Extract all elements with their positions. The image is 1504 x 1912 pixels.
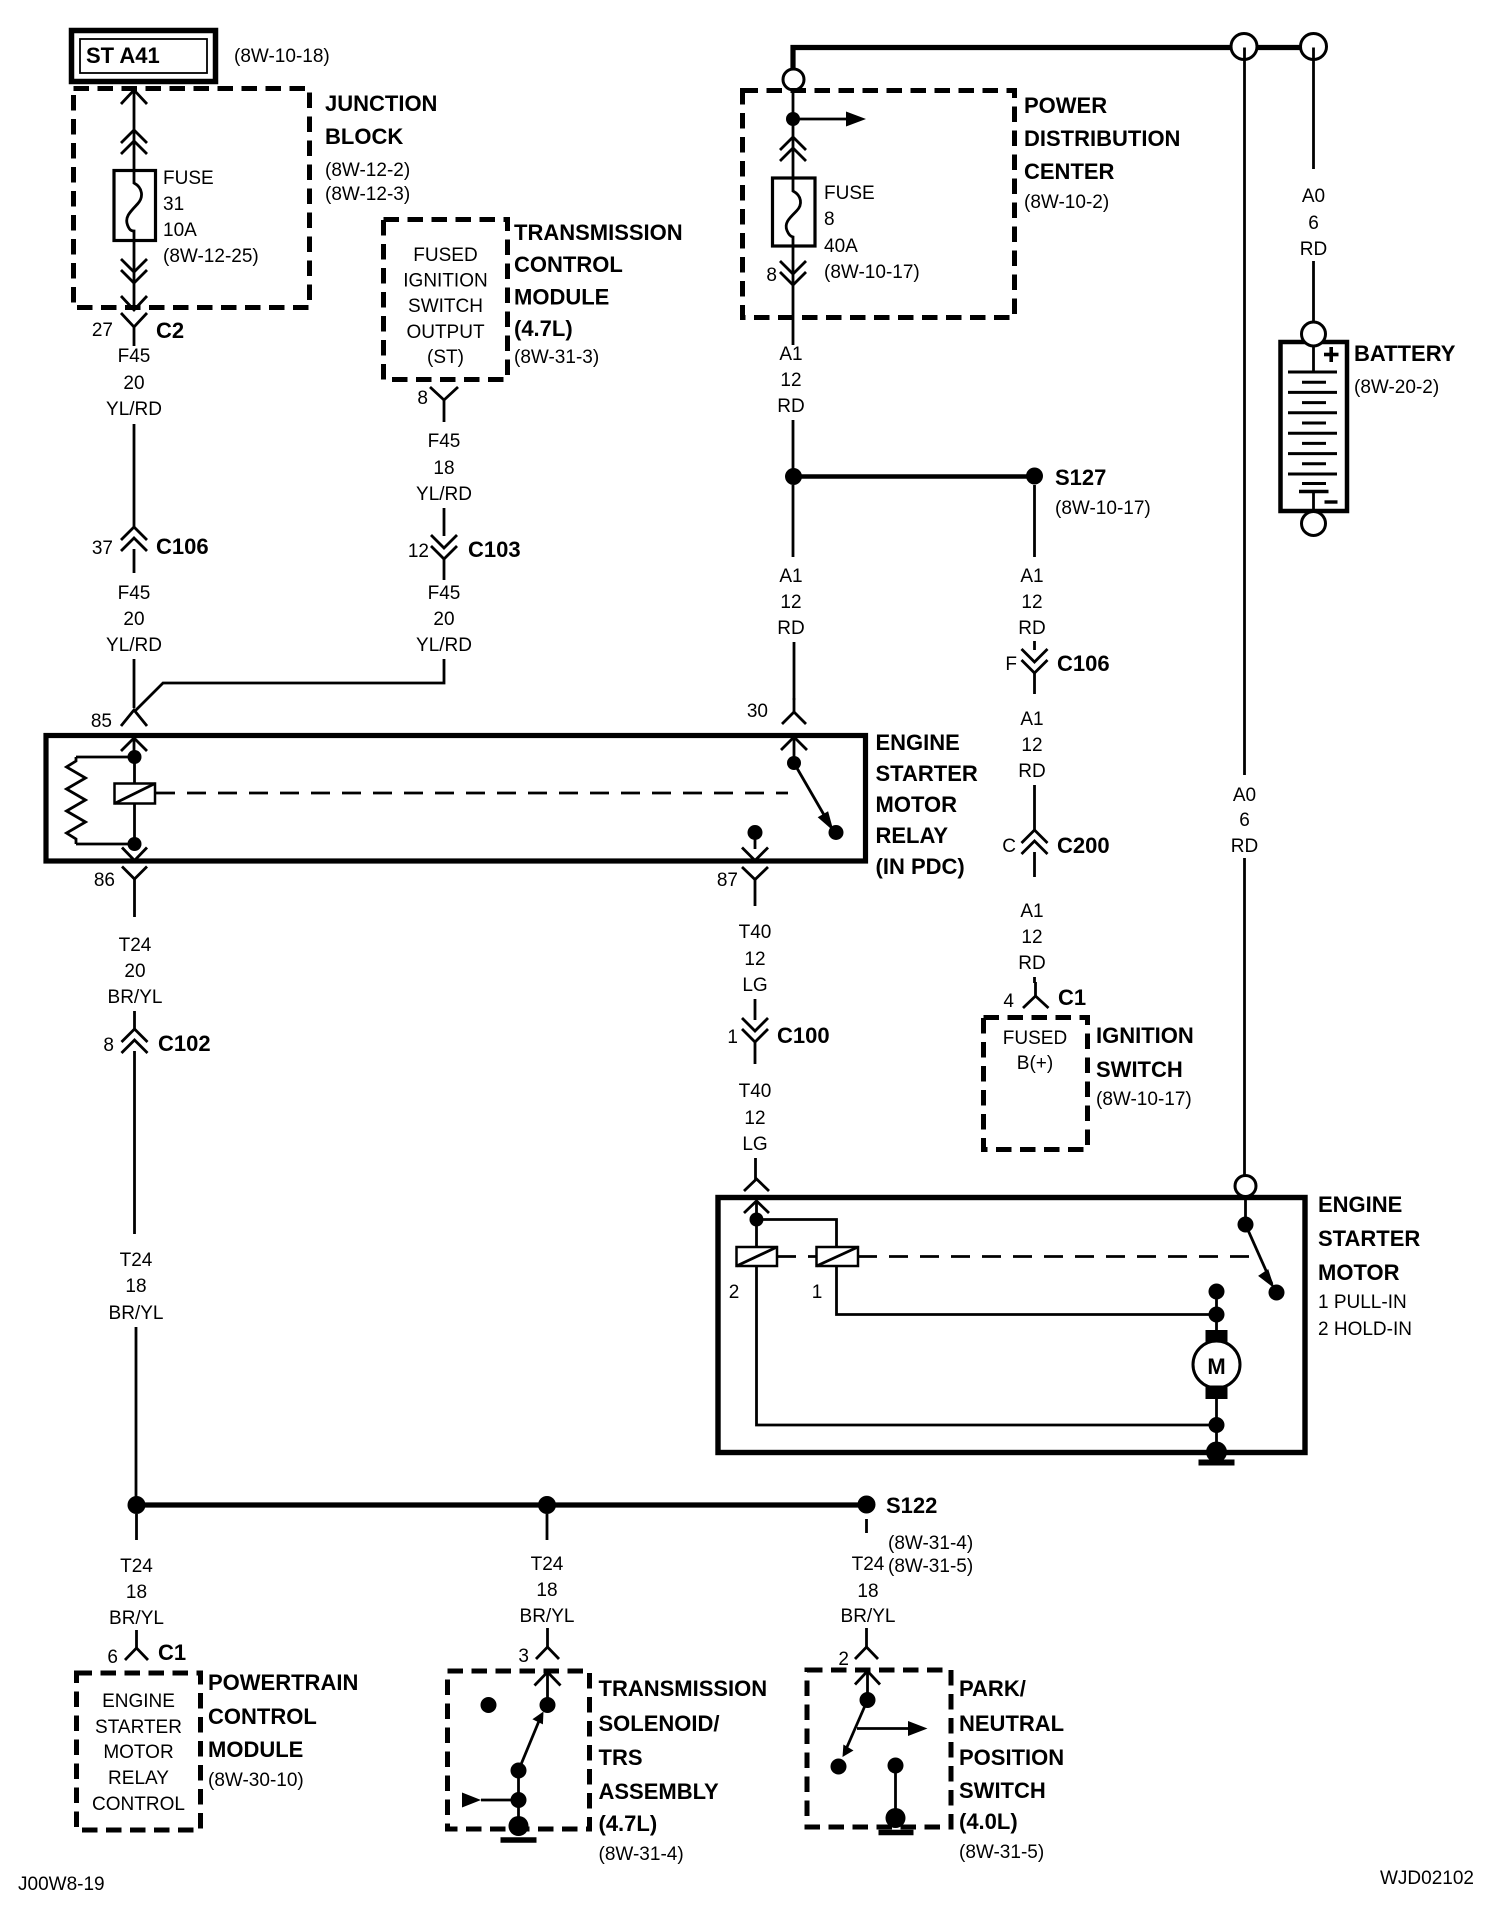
junction block box — [74, 89, 310, 308]
svg-text:12: 12 — [1021, 927, 1042, 948]
engine starter motor box — [718, 1198, 1305, 1453]
TRS free contact dot — [481, 1697, 497, 1713]
svg-text:(8W-12-25): (8W-12-25) — [163, 246, 259, 267]
wire to relay pin 30 — [793, 642, 796, 700]
wire label T24 20 BR/YL — [108, 935, 163, 1008]
relay pin 30 inner mark — [781, 737, 807, 750]
svg-text:MODULE: MODULE — [514, 285, 609, 310]
ignition switch label — [1096, 1023, 1194, 1110]
svg-text:C102: C102 — [158, 1031, 211, 1056]
svg-text:F45: F45 — [428, 583, 461, 604]
relay label — [876, 730, 978, 879]
svg-text:A1: A1 — [779, 344, 802, 365]
PDC branch arrow — [793, 112, 866, 127]
svg-text:(8W-10-17): (8W-10-17) — [824, 262, 920, 283]
wire S127 down left — [792, 485, 795, 557]
svg-text:A1: A1 — [779, 566, 802, 587]
svg-text:A1: A1 — [1020, 709, 1043, 730]
svg-text:(4.7L): (4.7L) — [599, 1811, 658, 1836]
wire label F45 20 YL/RD — [106, 346, 162, 420]
wire label T24 18 BR/YL — [520, 1554, 575, 1627]
svg-text:MOTOR: MOTOR — [876, 792, 958, 817]
wire 87 to C100 — [754, 999, 757, 1020]
wire TCM to C103 — [443, 508, 446, 536]
svg-text:TRANSMISSION: TRANSMISSION — [514, 220, 683, 245]
svg-text:B(+): B(+) — [1017, 1053, 1053, 1074]
svg-text:SWITCH: SWITCH — [408, 296, 483, 317]
svg-text:ST A41: ST A41 — [86, 43, 160, 68]
splice S122 bus — [136, 1502, 867, 1507]
svg-text:C100: C100 — [777, 1023, 830, 1048]
node battery feed circle 2 — [1301, 34, 1327, 60]
svg-text:T24: T24 — [852, 1554, 885, 1575]
svg-text:YL/RD: YL/RD — [106, 399, 162, 420]
svg-text:8: 8 — [766, 265, 777, 286]
svg-text:BR/YL: BR/YL — [109, 1303, 164, 1324]
ground PNP — [879, 1808, 914, 1833]
svg-text:12: 12 — [1021, 735, 1042, 756]
svg-text:T40: T40 — [739, 1081, 772, 1102]
power distribution center label — [1024, 93, 1180, 213]
svg-text:CONTROL: CONTROL — [514, 252, 623, 277]
connector relay pin 30 — [747, 698, 806, 724]
svg-text:C: C — [1002, 836, 1016, 857]
connector C103 pin 12 — [408, 535, 521, 580]
wire pin30 into switch — [793, 736, 796, 763]
svg-text:12: 12 — [780, 592, 801, 613]
svg-text:BLOCK: BLOCK — [325, 124, 403, 149]
PNP switch arm — [843, 1700, 868, 1757]
wire label T40 12 LG — [739, 1081, 772, 1155]
svg-text:A1: A1 — [1020, 566, 1043, 587]
svg-text:(8W-20-2): (8W-20-2) — [1354, 377, 1439, 398]
svg-text:85: 85 — [91, 711, 112, 732]
svg-text:FUSED: FUSED — [1003, 1028, 1067, 1049]
svg-text:20: 20 — [123, 373, 144, 394]
wire S122 to PCM — [135, 1514, 138, 1540]
starter switch arm — [1246, 1225, 1275, 1289]
wire C2 to C106 — [133, 424, 136, 527]
svg-text:8: 8 — [417, 388, 428, 409]
motor M1 — [1193, 1284, 1240, 1453]
wire S122 to TRS — [546, 1514, 549, 1540]
svg-text:YL/RD: YL/RD — [416, 635, 472, 656]
svg-text:4: 4 — [1003, 991, 1014, 1012]
svg-text:BR/YL: BR/YL — [109, 1608, 164, 1629]
svg-text:STARTER: STARTER — [876, 761, 978, 786]
svg-text:(4.0L): (4.0L) — [959, 1809, 1018, 1834]
svg-text:F45: F45 — [118, 583, 151, 604]
svg-text:3: 3 — [518, 1646, 529, 1667]
svg-text:BR/YL: BR/YL — [841, 1606, 896, 1627]
wire switch feed — [1244, 1197, 1247, 1226]
svg-text:BR/YL: BR/YL — [520, 1606, 575, 1627]
starter pin entry mark — [744, 1201, 769, 1220]
svg-text:F45: F45 — [118, 346, 151, 367]
svg-text:T24: T24 — [531, 1554, 564, 1575]
svg-text:(8W-12-3): (8W-12-3) — [325, 184, 410, 205]
powertrain control module box — [77, 1673, 201, 1830]
wire into junction block — [121, 90, 147, 171]
svg-text:BR/YL: BR/YL — [108, 987, 163, 1008]
svg-text:MODULE: MODULE — [208, 1737, 303, 1762]
svg-text:NEUTRAL: NEUTRAL — [959, 1711, 1064, 1736]
svg-text:OUTPUT: OUTPUT — [406, 322, 485, 343]
node battery feed circle 1 — [1231, 34, 1257, 60]
svg-text:MOTOR: MOTOR — [103, 1742, 173, 1763]
node ST A41 — [72, 31, 216, 82]
svg-text:6: 6 — [1239, 810, 1250, 831]
ground TRS — [501, 1816, 537, 1840]
wire label A1 12 RD — [777, 566, 804, 639]
svg-text:SWITCH: SWITCH — [959, 1778, 1046, 1803]
connector marks above fuse 8 — [780, 137, 806, 161]
svg-text:RD: RD — [1300, 239, 1327, 260]
svg-text:PARK/: PARK/ — [959, 1676, 1026, 1701]
svg-text:37: 37 — [92, 538, 113, 559]
svg-text:CONTROL: CONTROL — [92, 1794, 185, 1815]
PNP switch contact dot — [831, 1759, 847, 1775]
transmission solenoid TRS box — [448, 1671, 590, 1829]
svg-text:C106: C106 — [156, 534, 209, 559]
TRS entry mark — [535, 1672, 561, 1698]
wire label A1 12 RD — [777, 344, 804, 417]
svg-text:27: 27 — [92, 320, 113, 341]
svg-text:(8W-31-5): (8W-31-5) — [888, 1556, 973, 1577]
svg-text:A1: A1 — [1020, 901, 1043, 922]
junction block label — [325, 91, 437, 205]
svg-text:RD: RD — [1018, 953, 1045, 974]
svg-text:20: 20 — [124, 961, 145, 982]
mechanical link coil1-switch (dashed) — [858, 1255, 1252, 1258]
PNP arrow — [857, 1721, 928, 1736]
connector C102 pin 8 — [103, 1029, 210, 1234]
svg-text:40A: 40A — [824, 236, 858, 257]
fuse 31 10A — [114, 171, 156, 241]
svg-text:C1: C1 — [158, 1640, 186, 1665]
node relay coil top — [128, 750, 142, 764]
svg-text:T24: T24 — [120, 1556, 153, 1577]
wire C102 to S122 — [135, 1327, 138, 1500]
svg-text:20: 20 — [123, 609, 144, 630]
TCM output box — [384, 220, 508, 380]
wire PDC to S127 — [792, 420, 795, 470]
svg-text:C2: C2 — [156, 318, 184, 343]
svg-text:A0: A0 — [1233, 785, 1256, 806]
wire pull-in coil to motor — [837, 1266, 1217, 1315]
svg-text:(8W-31-4): (8W-31-4) — [888, 1533, 973, 1554]
svg-text:20: 20 — [433, 609, 454, 630]
TRS arrow — [462, 1793, 519, 1808]
PNP second pole — [888, 1758, 904, 1819]
wire label T24 18 BR/YL — [109, 1250, 164, 1324]
svg-text:J00W8-19: J00W8-19 — [18, 1874, 105, 1895]
svg-text:8: 8 — [824, 209, 835, 230]
svg-text:8: 8 — [103, 1035, 114, 1056]
svg-text:BATTERY: BATTERY — [1354, 341, 1456, 366]
connector TCM pin 8 — [417, 387, 458, 422]
svg-text:(8W-10-17): (8W-10-17) — [1055, 498, 1151, 519]
connector starter motor pin — [744, 1179, 769, 1191]
PCM box text — [92, 1691, 185, 1815]
pull-in coil 1 — [817, 1247, 859, 1266]
svg-text:FUSE: FUSE — [824, 183, 875, 204]
svg-text:SWITCH: SWITCH — [1096, 1057, 1183, 1082]
connector C106 pin F — [1005, 641, 1109, 694]
ignition switch box — [984, 1018, 1088, 1150]
svg-text:JUNCTION: JUNCTION — [325, 91, 437, 116]
svg-text:YL/RD: YL/RD — [416, 484, 472, 505]
svg-text:(8W-31-3): (8W-31-3) — [514, 347, 599, 368]
svg-text:S122: S122 — [886, 1493, 937, 1518]
connector TRS pin 3 — [518, 1628, 559, 1667]
fuse 8 40A — [773, 178, 816, 249]
relay pin 85 — [91, 710, 147, 757]
svg-text:2: 2 — [729, 1282, 740, 1303]
TRS label — [599, 1676, 768, 1865]
svg-text:MOTOR: MOTOR — [1318, 1260, 1400, 1285]
svg-text:A0: A0 — [1302, 186, 1325, 207]
wire label T24 18 BR/YL — [109, 1556, 164, 1629]
svg-text:2 HOLD-IN: 2 HOLD-IN — [1318, 1319, 1412, 1340]
relay pin 87 dot — [748, 825, 763, 840]
wire C103 to relay pin 85 — [134, 659, 444, 712]
svg-text:RELAY: RELAY — [876, 823, 949, 848]
relay coil K1 — [115, 757, 156, 844]
svg-text:TRS: TRS — [599, 1745, 643, 1770]
battery feed wire A0 right — [1312, 48, 1315, 324]
svg-text:12: 12 — [408, 541, 429, 562]
svg-text:ENGINE: ENGINE — [1318, 1192, 1402, 1217]
svg-text:1 PULL-IN: 1 PULL-IN — [1318, 1292, 1407, 1313]
PNP label — [959, 1676, 1064, 1863]
TRS wire arm to ground — [517, 1771, 520, 1827]
relay pin 87 exit — [717, 833, 768, 907]
svg-text:C103: C103 — [468, 537, 521, 562]
svg-text:6: 6 — [1308, 213, 1319, 234]
node S122 middle dot — [538, 1496, 556, 1514]
svg-text:(8W-31-5): (8W-31-5) — [959, 1842, 1044, 1863]
svg-text:S127: S127 — [1055, 465, 1106, 490]
svg-text:T24: T24 — [120, 1250, 153, 1271]
coil pin labels — [729, 1282, 823, 1303]
wire label T40 12 LG — [739, 922, 772, 996]
connector PDC pin 8 — [766, 249, 806, 345]
connector C200 pin C — [1002, 830, 1109, 877]
wire C100 to starter motor — [754, 1158, 757, 1180]
TRS junction dot — [511, 1792, 527, 1808]
svg-text:12: 12 — [1021, 592, 1042, 613]
PNP entry mark — [855, 1671, 880, 1693]
wire label T24 18 BR/YL right — [841, 1554, 896, 1627]
svg-text:IGNITION: IGNITION — [403, 271, 487, 292]
svg-text:(ST): (ST) — [427, 347, 464, 368]
node PDC feed circle — [783, 69, 804, 90]
starter switch contact dot — [1269, 1285, 1285, 1301]
svg-text:12: 12 — [744, 1108, 765, 1129]
resistor (relay suppression) — [67, 757, 135, 844]
TRS switch arm — [519, 1712, 544, 1771]
connector C100 pin 1 — [727, 1018, 829, 1064]
TCM label — [514, 220, 683, 368]
svg-text:(8W-10-17): (8W-10-17) — [1096, 1089, 1192, 1110]
svg-text:(4.7L): (4.7L) — [514, 316, 573, 341]
svg-text:(8W-12-2): (8W-12-2) — [325, 160, 410, 181]
svg-text:18: 18 — [857, 1581, 878, 1602]
svg-text:STARTER: STARTER — [95, 1717, 182, 1738]
svg-text:T40: T40 — [739, 922, 772, 943]
svg-text:LG: LG — [742, 1134, 767, 1155]
splice S127 — [785, 465, 1151, 519]
wire PDC feed — [792, 90, 795, 178]
svg-text:ENGINE: ENGINE — [102, 1691, 175, 1712]
hold-in coil 2 — [737, 1220, 778, 1267]
node relay coil bottom — [128, 837, 142, 851]
relay switch common dot — [787, 756, 801, 770]
svg-text:(8W-10-18): (8W-10-18) — [234, 46, 330, 67]
svg-text:1: 1 — [727, 1027, 738, 1048]
svg-text:C200: C200 — [1057, 833, 1110, 858]
fuse 8 label — [824, 183, 920, 283]
node starter coil junction — [750, 1213, 764, 1227]
svg-text:(8W-30-10): (8W-30-10) — [208, 1770, 304, 1791]
connector C1 pin 4 — [1003, 982, 1086, 1012]
svg-text:LG: LG — [742, 975, 767, 996]
wire out of junction block — [121, 239, 147, 310]
svg-text:WJD02102: WJD02102 — [1380, 1868, 1474, 1889]
svg-text:87: 87 — [717, 870, 738, 891]
battery feed wire A0 left — [1243, 48, 1246, 1177]
wire label F45 20 YL/RD — [416, 583, 472, 656]
fuse 31 label — [163, 168, 259, 267]
power distribution center box — [743, 91, 1015, 318]
splice S122 — [858, 1493, 974, 1577]
wire label F45 20 YL/RD — [106, 583, 162, 656]
ground starter motor — [1199, 1442, 1235, 1463]
svg-text:POWERTRAIN: POWERTRAIN — [208, 1670, 358, 1695]
connector C2 pin 27 — [92, 313, 184, 346]
svg-text:F: F — [1005, 654, 1017, 675]
svg-text:FUSED: FUSED — [413, 245, 477, 266]
relay box (engine starter motor relay) — [46, 736, 866, 862]
svg-text:10A: 10A — [163, 220, 197, 241]
svg-text:18: 18 — [125, 1276, 146, 1297]
svg-text:CONTROL: CONTROL — [208, 1704, 317, 1729]
relay pin 86 exit — [94, 848, 147, 918]
svg-text:F45: F45 — [428, 431, 461, 452]
svg-text:RD: RD — [1018, 618, 1045, 639]
svg-text:STARTER: STARTER — [1318, 1226, 1420, 1251]
svg-text:RELAY: RELAY — [108, 1768, 169, 1789]
PNP switch top dot — [860, 1692, 876, 1708]
svg-text:SOLENOID/: SOLENOID/ — [599, 1711, 720, 1736]
relay switch arm — [794, 763, 834, 831]
svg-text:ENGINE: ENGINE — [876, 730, 960, 755]
svg-text:18: 18 — [536, 1580, 557, 1601]
svg-text:86: 86 — [94, 870, 115, 891]
svg-text:CENTER: CENTER — [1024, 159, 1115, 184]
svg-text:(8W-31-4): (8W-31-4) — [599, 1844, 684, 1865]
wire C106 to C200 — [1033, 785, 1036, 830]
mechanical link coil2-coil1 (dashed) — [777, 1255, 817, 1258]
svg-text:RD: RD — [777, 618, 804, 639]
svg-text:M: M — [1207, 1354, 1225, 1379]
wire label A0 6 RD — [1300, 186, 1327, 260]
svg-text:31: 31 — [163, 194, 184, 215]
wire 86 to C102 — [133, 1011, 136, 1030]
node PDC branch dot — [786, 112, 800, 126]
engine starter motor label — [1318, 1192, 1420, 1340]
svg-text:6: 6 — [107, 1647, 118, 1668]
relay switch contact dot — [829, 825, 844, 840]
wire to pull-in coil — [757, 1220, 837, 1248]
starter switch pivot dot — [1238, 1217, 1254, 1233]
PCM label — [208, 1670, 358, 1791]
svg-text:ASSEMBLY: ASSEMBLY — [599, 1779, 720, 1804]
wire label A1 12 RD — [1018, 709, 1045, 782]
top bus wire — [793, 48, 1314, 70]
svg-text:T24: T24 — [119, 935, 152, 956]
svg-text:12: 12 — [780, 370, 801, 391]
relay mechanical link (dashed) — [156, 792, 788, 795]
svg-text:(IN PDC): (IN PDC) — [876, 854, 965, 879]
svg-text:12: 12 — [744, 949, 765, 970]
ignition switch box text — [1003, 1028, 1067, 1074]
wire label A1 12 RD — [1018, 901, 1045, 974]
svg-text:POWER: POWER — [1024, 93, 1107, 118]
svg-text:DISTRIBUTION: DISTRIBUTION — [1024, 126, 1180, 151]
svg-text:C106: C106 — [1057, 651, 1110, 676]
svg-text:RD: RD — [1231, 836, 1258, 857]
svg-text:18: 18 — [126, 1582, 147, 1603]
connector PNP pin 2 — [838, 1628, 878, 1670]
svg-text:30: 30 — [747, 701, 768, 722]
park neutral position switch box — [807, 1670, 951, 1827]
wire label A1 12 RD — [1018, 566, 1045, 639]
svg-text:YL/RD: YL/RD — [106, 635, 162, 656]
starter switch entry circle — [1235, 1176, 1256, 1197]
wire S127 down right — [1033, 485, 1036, 557]
wire label A0 6 RD — [1231, 785, 1258, 857]
svg-text:POSITION: POSITION — [959, 1745, 1064, 1770]
wire C106 to relay pin 85 — [133, 659, 136, 708]
svg-text:RD: RD — [777, 396, 804, 417]
svg-text:(8W-10-2): (8W-10-2) — [1024, 192, 1109, 213]
battery B1 — [1281, 322, 1348, 536]
TRS switch arm dot — [511, 1763, 527, 1779]
wire hold-in coil to motor bottom — [757, 1266, 1217, 1425]
svg-text:FUSE: FUSE — [163, 168, 214, 189]
svg-text:18: 18 — [433, 458, 454, 479]
svg-text:2: 2 — [838, 1649, 849, 1670]
wire label F45 18 YL/RD — [416, 431, 472, 505]
connector C106 pin 37 — [92, 527, 209, 573]
connector C1 pin 6 — [107, 1630, 186, 1668]
svg-text:IGNITION: IGNITION — [1096, 1023, 1194, 1048]
TCM output box text — [403, 245, 487, 368]
svg-text:C1: C1 — [1058, 985, 1086, 1010]
svg-text:TRANSMISSION: TRANSMISSION — [599, 1676, 768, 1701]
svg-text:1: 1 — [812, 1282, 823, 1303]
TRS switch top dot — [540, 1697, 556, 1713]
battery label — [1354, 341, 1456, 398]
svg-text:RD: RD — [1018, 761, 1045, 782]
node S122 left dot — [128, 1496, 146, 1514]
wire C200 to C1 — [1033, 977, 1036, 983]
